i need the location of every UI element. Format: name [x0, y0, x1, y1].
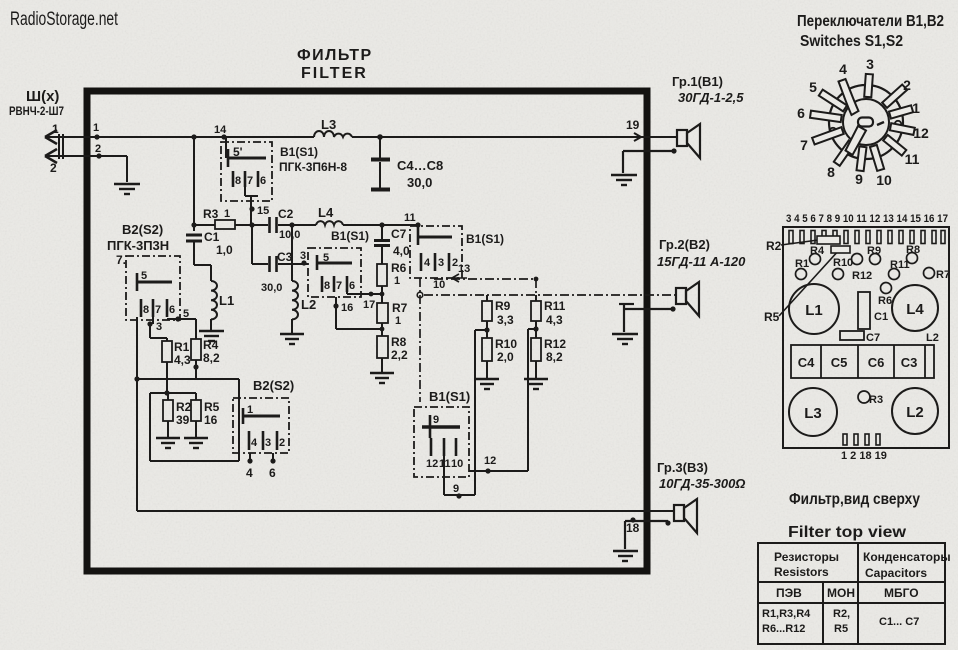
- svg-text:6: 6: [797, 105, 805, 121]
- svg-text:11: 11: [439, 458, 451, 470]
- svg-text:Гр.3(В3): Гр.3(В3): [657, 460, 708, 475]
- svg-text:4,3: 4,3: [546, 313, 563, 327]
- svg-text:7: 7: [247, 175, 253, 187]
- svg-text:C6: C6: [868, 355, 885, 370]
- svg-text:ПГК-3П6Н-8: ПГК-3П6Н-8: [279, 160, 347, 174]
- svg-text:10: 10: [451, 458, 463, 470]
- svg-text:10,0: 10,0: [279, 229, 300, 241]
- svg-text:R2: R2: [176, 400, 192, 414]
- svg-text:R12: R12: [852, 270, 872, 282]
- svg-text:14: 14: [214, 124, 227, 136]
- svg-text:11: 11: [905, 151, 920, 167]
- svg-text:6: 6: [260, 175, 266, 187]
- svg-text:39: 39: [176, 413, 190, 427]
- svg-text:10: 10: [433, 279, 445, 291]
- svg-text:C7: C7: [391, 227, 407, 241]
- svg-text:R3: R3: [203, 207, 219, 221]
- svg-text:2: 2: [279, 437, 285, 449]
- svg-text:1: 1: [912, 100, 920, 116]
- svg-text:RadioStorage.net: RadioStorage.net: [10, 9, 119, 30]
- svg-text:2: 2: [95, 143, 101, 155]
- svg-text:6: 6: [269, 466, 276, 480]
- svg-text:30,0: 30,0: [261, 282, 282, 294]
- svg-text:В1(S1): В1(S1): [466, 232, 504, 246]
- svg-text:18: 18: [626, 521, 640, 535]
- svg-text:Резисторы: Резисторы: [774, 550, 839, 564]
- svg-text:15: 15: [257, 205, 269, 217]
- svg-text:Filter top view: Filter top view: [788, 524, 907, 541]
- svg-text:4: 4: [424, 257, 431, 269]
- svg-text:R8: R8: [391, 335, 407, 349]
- svg-text:Фильтр,вид сверху: Фильтр,вид сверху: [789, 491, 920, 508]
- svg-text:4: 4: [246, 466, 253, 480]
- svg-text:9: 9: [433, 414, 439, 426]
- svg-text:15ГД-11 А-120: 15ГД-11 А-120: [657, 254, 746, 269]
- svg-text:R10: R10: [833, 257, 853, 269]
- svg-text:7: 7: [336, 280, 342, 292]
- svg-text:11: 11: [404, 212, 416, 224]
- svg-text:8,2: 8,2: [546, 350, 563, 364]
- svg-text:8: 8: [324, 280, 330, 292]
- svg-text:R3: R3: [869, 394, 883, 406]
- svg-text:30,0: 30,0: [407, 175, 432, 190]
- svg-text:В2(S2): В2(S2): [122, 222, 163, 237]
- svg-text:ПГК-3П3Н: ПГК-3П3Н: [107, 238, 169, 253]
- svg-text:МОН: МОН: [827, 586, 855, 600]
- svg-text:3: 3: [265, 437, 271, 449]
- svg-text:ФИЛЬТР: ФИЛЬТР: [297, 47, 373, 64]
- svg-text:R12: R12: [544, 337, 566, 351]
- svg-text:Конденсаторы: Конденсаторы: [863, 550, 951, 564]
- svg-text:C7: C7: [866, 332, 880, 344]
- svg-text:R5: R5: [834, 623, 848, 635]
- svg-text:L3: L3: [321, 117, 336, 132]
- svg-text:1,0: 1,0: [216, 243, 233, 257]
- svg-text:R2: R2: [766, 239, 782, 253]
- svg-text:10ГД-35-300Ω: 10ГД-35-300Ω: [659, 476, 745, 491]
- svg-text:L2: L2: [301, 297, 316, 312]
- svg-text:В1(S1): В1(S1): [331, 229, 369, 243]
- svg-text:12: 12: [426, 458, 438, 470]
- svg-text:L2: L2: [926, 332, 939, 344]
- svg-text:РВНЧ-2-Ш7: РВНЧ-2-Ш7: [9, 104, 64, 118]
- svg-text:R7: R7: [936, 269, 950, 281]
- svg-text:Гр.1(В1): Гр.1(В1): [672, 74, 723, 89]
- svg-text:2: 2: [50, 161, 57, 175]
- svg-text:Ш(х): Ш(х): [26, 88, 59, 105]
- svg-text:8: 8: [143, 304, 149, 316]
- svg-text:B2(S2): B2(S2): [253, 378, 294, 393]
- svg-text:5: 5: [323, 252, 329, 264]
- svg-text:C1: C1: [204, 230, 220, 244]
- svg-text:R6: R6: [878, 295, 892, 307]
- svg-text:4: 4: [839, 61, 847, 77]
- svg-text:Switches S1,S2: Switches S1,S2: [800, 33, 903, 50]
- svg-text:L4: L4: [906, 301, 924, 318]
- svg-text:5: 5: [183, 308, 189, 320]
- svg-text:3: 3: [866, 56, 874, 72]
- svg-text:ПЭВ: ПЭВ: [776, 586, 802, 600]
- svg-text:12: 12: [913, 125, 929, 141]
- svg-text:1: 1: [224, 208, 230, 220]
- svg-text:3 4 5 6 7 8 9 10 11 12 13 14 1: 3 4 5 6 7 8 9 10 11 12 13 14 15 16 17: [786, 213, 948, 225]
- svg-text:FILTER: FILTER: [301, 65, 368, 82]
- svg-text:7: 7: [800, 137, 808, 153]
- svg-text:L1: L1: [805, 302, 823, 319]
- svg-text:C5: C5: [831, 355, 848, 370]
- svg-text:16: 16: [204, 413, 218, 427]
- svg-text:C1: C1: [874, 311, 888, 323]
- svg-text:3: 3: [156, 321, 162, 333]
- svg-text:L4: L4: [318, 205, 334, 220]
- svg-text:1: 1: [52, 122, 59, 136]
- svg-text:2: 2: [903, 77, 911, 93]
- svg-text:R4: R4: [203, 338, 219, 352]
- svg-text:2,0: 2,0: [497, 350, 514, 364]
- svg-text:В1(S1): В1(S1): [429, 389, 470, 404]
- svg-text:4,3: 4,3: [174, 353, 191, 367]
- svg-text:R6...R12: R6...R12: [762, 623, 805, 635]
- svg-text:8,2: 8,2: [203, 351, 220, 365]
- svg-text:17: 17: [363, 299, 375, 311]
- svg-text:5: 5: [141, 270, 147, 282]
- svg-text:C2: C2: [278, 207, 294, 221]
- svg-text:1 2 18 19: 1 2 18 19: [841, 450, 887, 462]
- svg-text:1: 1: [394, 275, 400, 287]
- svg-text:В1(S1): В1(S1): [280, 145, 318, 159]
- svg-text:3: 3: [300, 250, 306, 262]
- svg-text:1: 1: [93, 122, 99, 134]
- svg-text:Capacitors: Capacitors: [865, 566, 927, 580]
- svg-text:4: 4: [251, 437, 258, 449]
- svg-text:6: 6: [169, 304, 175, 316]
- svg-text:R5: R5: [764, 310, 780, 324]
- svg-text:6: 6: [349, 280, 355, 292]
- svg-text:3,3: 3,3: [497, 313, 514, 327]
- svg-text:R1,R3,R4: R1,R3,R4: [762, 608, 811, 620]
- svg-text:1: 1: [247, 404, 253, 416]
- svg-text:Гр.2(В2): Гр.2(В2): [659, 237, 710, 252]
- svg-text:C4: C4: [798, 355, 815, 370]
- svg-text:C3: C3: [277, 250, 293, 264]
- svg-text:R9: R9: [495, 299, 511, 313]
- svg-text:R10: R10: [495, 337, 517, 351]
- svg-text:9: 9: [453, 483, 459, 495]
- svg-text:10: 10: [876, 172, 892, 188]
- svg-text:МБГО: МБГО: [884, 586, 919, 600]
- svg-text:9: 9: [855, 171, 863, 187]
- svg-text:16: 16: [341, 302, 353, 314]
- svg-text:C1... C7: C1... C7: [879, 616, 919, 628]
- svg-text:R5: R5: [204, 400, 220, 414]
- svg-text:Переключатели В1,В2: Переключатели В1,В2: [797, 13, 944, 30]
- svg-text:2,2: 2,2: [391, 348, 408, 362]
- svg-text:7: 7: [155, 304, 161, 316]
- svg-text:19: 19: [626, 118, 640, 132]
- svg-text:C4…C8: C4…C8: [397, 158, 443, 173]
- svg-text:5': 5': [233, 145, 243, 159]
- svg-text:13: 13: [458, 263, 470, 275]
- svg-text:R1: R1: [174, 340, 190, 354]
- svg-text:C3: C3: [901, 355, 918, 370]
- svg-text:5: 5: [809, 79, 817, 95]
- svg-text:L2: L2: [906, 404, 924, 421]
- svg-text:8: 8: [235, 175, 241, 187]
- svg-text:12: 12: [484, 455, 496, 467]
- svg-text:3: 3: [438, 257, 444, 269]
- svg-text:L1: L1: [219, 293, 234, 308]
- svg-text:L3: L3: [804, 405, 822, 422]
- svg-text:4,0: 4,0: [393, 244, 410, 258]
- svg-text:8: 8: [827, 164, 835, 180]
- svg-text:30ГД-1-2,5: 30ГД-1-2,5: [678, 90, 744, 105]
- svg-text:1: 1: [395, 315, 401, 327]
- svg-text:R6: R6: [391, 261, 407, 275]
- svg-text:Resistors: Resistors: [774, 565, 829, 579]
- svg-text:R11: R11: [544, 299, 566, 313]
- svg-text:R2,: R2,: [833, 608, 850, 620]
- svg-text:7.: 7.: [116, 253, 126, 267]
- svg-text:R7: R7: [392, 301, 408, 315]
